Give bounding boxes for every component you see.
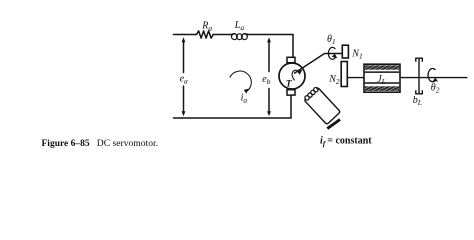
svg-text:eb: eb <box>262 74 270 86</box>
svg-text:Figure 6–85: Figure 6–85 <box>42 139 90 149</box>
svg-text:DC servomotor.: DC servomotor. <box>97 138 158 149</box>
svg-text:θ1: θ1 <box>327 34 336 46</box>
svg-text:if = constant: if = constant <box>320 136 372 148</box>
svg-text:N2: N2 <box>328 74 340 86</box>
svg-text:bL: bL <box>413 95 422 107</box>
svg-text:Ra: Ra <box>201 21 212 33</box>
svg-text:ia: ia <box>241 92 248 104</box>
svg-text:ea: ea <box>180 74 188 86</box>
svg-text:T: T <box>286 79 293 89</box>
svg-text:La: La <box>234 20 245 32</box>
svg-text:N1: N1 <box>351 48 362 60</box>
svg-text:θ2: θ2 <box>431 82 440 94</box>
